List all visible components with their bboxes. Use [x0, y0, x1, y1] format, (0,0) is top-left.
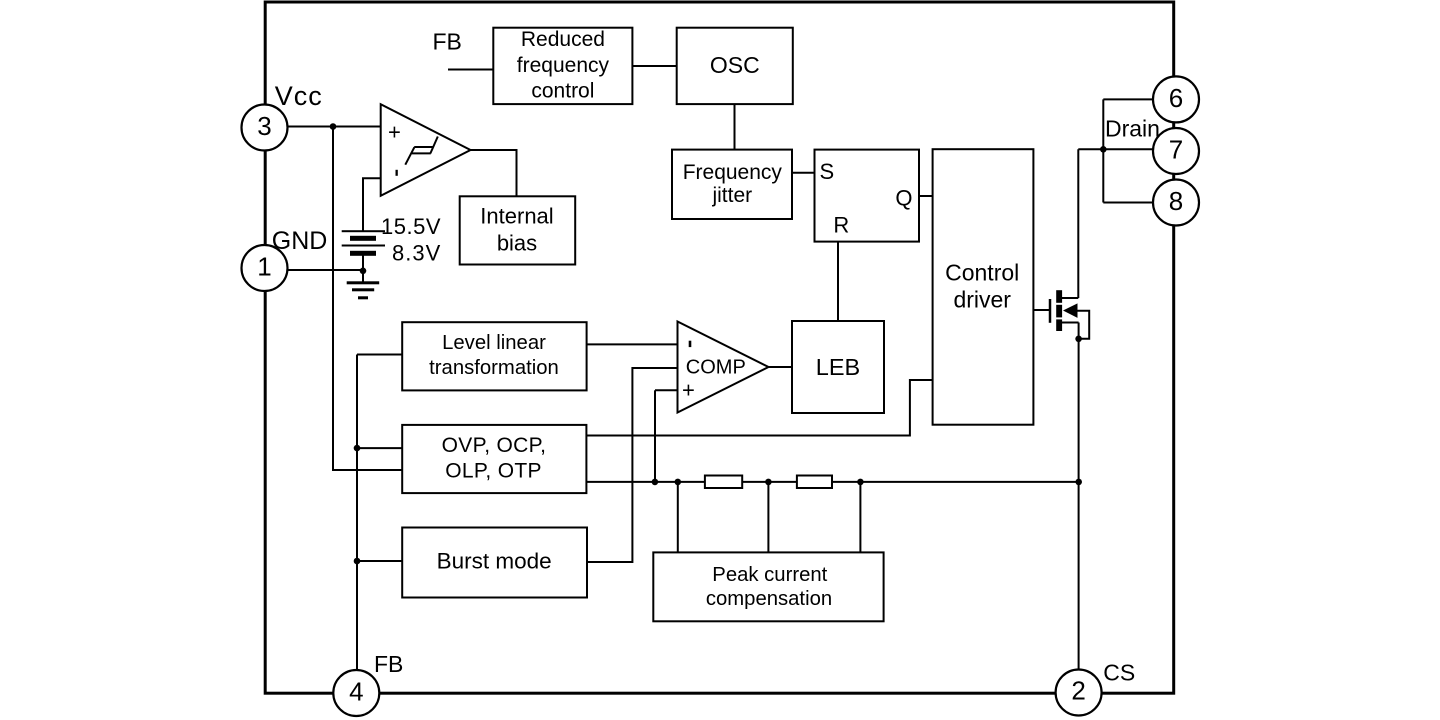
svg-text:+: + — [682, 378, 695, 403]
svg-text:15.5V: 15.5V — [381, 214, 441, 239]
svg-text:OLP, OTP: OLP, OTP — [445, 460, 542, 483]
svg-text:transformation: transformation — [429, 357, 559, 379]
svg-text:CS: CS — [1103, 660, 1135, 686]
svg-text:1: 1 — [257, 252, 271, 282]
svg-text:control: control — [531, 80, 594, 103]
svg-text:Control: Control — [945, 259, 1019, 285]
svg-text:OSC: OSC — [710, 52, 760, 78]
svg-text:3: 3 — [257, 111, 271, 141]
svg-text:frequency: frequency — [517, 54, 610, 77]
svg-text:driver: driver — [953, 287, 1011, 313]
svg-text:Level linear: Level linear — [442, 332, 546, 354]
svg-text:R: R — [833, 213, 849, 238]
svg-text:Q: Q — [895, 186, 912, 211]
svg-text:LEB: LEB — [816, 354, 860, 380]
svg-text:Reduced: Reduced — [521, 28, 605, 51]
svg-text:8: 8 — [1169, 186, 1183, 216]
svg-text:S: S — [820, 159, 835, 184]
svg-text:Frequency: Frequency — [683, 161, 783, 184]
svg-text:Peak current: Peak current — [712, 564, 827, 586]
svg-text:8.3V: 8.3V — [392, 241, 441, 266]
svg-text:FB: FB — [374, 651, 403, 677]
svg-text:4: 4 — [349, 677, 363, 707]
svg-text:7: 7 — [1169, 135, 1183, 165]
svg-text:Vcc: Vcc — [275, 81, 323, 111]
svg-text:jitter: jitter — [711, 184, 752, 207]
svg-text:OVP, OCP,: OVP, OCP, — [442, 434, 547, 457]
svg-text:Internal: Internal — [480, 204, 553, 229]
svg-text:GND: GND — [272, 227, 328, 255]
svg-text:+: + — [388, 120, 401, 145]
svg-text:2: 2 — [1071, 676, 1085, 706]
svg-text:Burst mode: Burst mode — [437, 549, 552, 574]
svg-text:COMP: COMP — [686, 357, 746, 379]
svg-text:FB: FB — [433, 29, 462, 55]
svg-text:Drain: Drain — [1105, 116, 1160, 142]
svg-text:6: 6 — [1169, 83, 1183, 113]
svg-text:compensation: compensation — [706, 588, 832, 610]
svg-text:bias: bias — [497, 231, 537, 256]
